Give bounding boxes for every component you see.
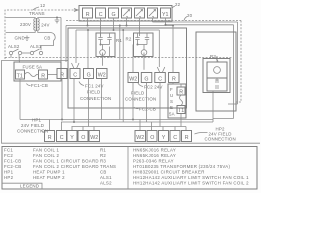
svg-text:T1: T1 [17, 73, 23, 79]
svg-text:5A: 5A [169, 112, 175, 117]
svg-text:R: R [48, 135, 52, 141]
svg-text:HN65KJ016 RELAY: HN65KJ016 RELAY [133, 148, 176, 153]
svg-text:R: R [172, 76, 176, 82]
svg-text:C: C [60, 135, 64, 141]
svg-text:C: C [158, 76, 162, 82]
svg-text:ALS1: ALS1 [30, 44, 42, 49]
svg-text:CONNECTION: CONNECTION [80, 96, 111, 101]
svg-text:FC1: FC1 [4, 148, 13, 153]
svg-text:E: E [170, 105, 173, 110]
svg-text:S: S [170, 99, 173, 104]
svg-text:HP2: HP2 [4, 175, 14, 180]
svg-text:R2: R2 [100, 153, 106, 158]
svg-text:W2: W2 [98, 72, 106, 78]
svg-text:230V: 230V [20, 22, 31, 27]
svg-text:C: C [99, 12, 103, 18]
svg-text:TRANS: TRANS [100, 164, 116, 169]
svg-text:12: 12 [40, 3, 46, 8]
svg-text:CB: CB [100, 170, 107, 175]
svg-text:20: 20 [187, 13, 193, 18]
svg-text:FAN COIL 1 CIRCUIT BOARD: FAN COIL 1 CIRCUIT BOARD [33, 159, 99, 164]
svg-text:R: R [60, 72, 64, 78]
svg-text:O: O [81, 135, 85, 141]
svg-text:FC2: FC2 [4, 153, 13, 158]
svg-text:22: 22 [175, 2, 181, 7]
svg-text:FC1-CB: FC1-CB [31, 83, 48, 88]
svg-text:ALS1: ALS1 [100, 175, 112, 180]
svg-text:R: R [86, 12, 90, 18]
svg-text:HP1: HP1 [4, 170, 14, 175]
svg-text:HP1: HP1 [32, 118, 41, 123]
svg-text:W2: W2 [129, 76, 137, 82]
svg-text:R2: R2 [126, 37, 132, 42]
svg-text:HT01B0235 TRANSFORMER (230/24: HT01B0235 TRANSFORMER (230/24 75VA) [133, 164, 231, 169]
svg-text:O: O [150, 135, 154, 141]
svg-text:CONNECTION: CONNECTION [125, 97, 156, 102]
svg-text:W2: W2 [90, 135, 98, 141]
svg-text:R: R [179, 90, 183, 96]
svg-text:ALS2: ALS2 [8, 44, 20, 49]
svg-text:HH12HA142 AUXILIARY LIMIT SWIT: HH12HA142 AUXILIARY LIMIT SWITCH FAN COI… [133, 181, 249, 186]
svg-text:HN65KJ016 RELAY: HN65KJ016 RELAY [133, 153, 176, 158]
svg-text:C: C [73, 72, 77, 78]
svg-text:FAN COIL 1: FAN COIL 1 [33, 148, 60, 153]
svg-text:R3: R3 [100, 159, 106, 164]
svg-text:24V: 24V [41, 23, 49, 28]
svg-text:Y: Y [162, 135, 166, 141]
svg-text:24V FIELD: 24V FIELD [21, 123, 44, 128]
svg-text:R: R [185, 135, 189, 141]
svg-text:HEAT PUMP 2: HEAT PUMP 2 [33, 175, 65, 180]
svg-text:F: F [170, 87, 173, 92]
svg-text:T1: T1 [178, 108, 184, 114]
svg-text:P263-0346 RELAY: P263-0346 RELAY [133, 159, 174, 164]
svg-text:FC2-CB: FC2-CB [139, 107, 156, 112]
svg-text:FAN COIL 2 CIRCUIT BOARD: FAN COIL 2 CIRCUIT BOARD [33, 164, 99, 169]
svg-text:HH83Z9001 CIRCUIT BREAKER: HH83Z9001 CIRCUIT BREAKER [133, 170, 205, 175]
svg-text:R1: R1 [100, 148, 106, 153]
svg-text:FC2-CB: FC2-CB [4, 164, 22, 169]
svg-text:Y1: Y1 [162, 12, 169, 18]
svg-text:GND: GND [15, 36, 25, 41]
svg-text:FC1 24V: FC1 24V [85, 84, 104, 89]
svg-text:FAN COIL 2: FAN COIL 2 [33, 153, 60, 158]
svg-text:R1: R1 [116, 38, 122, 43]
svg-text:G: G [144, 76, 148, 82]
svg-text:CONNECTION: CONNECTION [17, 129, 48, 134]
svg-text:FIELD: FIELD [87, 90, 100, 95]
svg-text:FC1-CB: FC1-CB [4, 159, 22, 164]
svg-text:U: U [170, 93, 173, 98]
svg-text:R: R [41, 73, 45, 79]
svg-text:CB: CB [44, 36, 50, 41]
svg-text:TRANS: TRANS [29, 11, 45, 16]
svg-text:ALS2: ALS2 [100, 181, 112, 186]
svg-text:CONNECTION: CONNECTION [205, 136, 236, 141]
svg-text:LEGEND: LEGEND [20, 184, 39, 189]
svg-text:W2: W2 [136, 135, 144, 141]
svg-text:HEAT PUMP 1: HEAT PUMP 1 [33, 170, 65, 175]
svg-text:C: C [173, 135, 177, 141]
svg-text:Y: Y [70, 135, 74, 141]
svg-text:HH12HA142 AUXILIARY LIMIT SWIT: HH12HA142 AUXILIARY LIMIT SWITCH FAN COI… [133, 175, 249, 180]
svg-text:G: G [87, 72, 91, 78]
svg-text:FUSE 5A: FUSE 5A [23, 65, 43, 70]
svg-text:G: G [112, 12, 116, 18]
